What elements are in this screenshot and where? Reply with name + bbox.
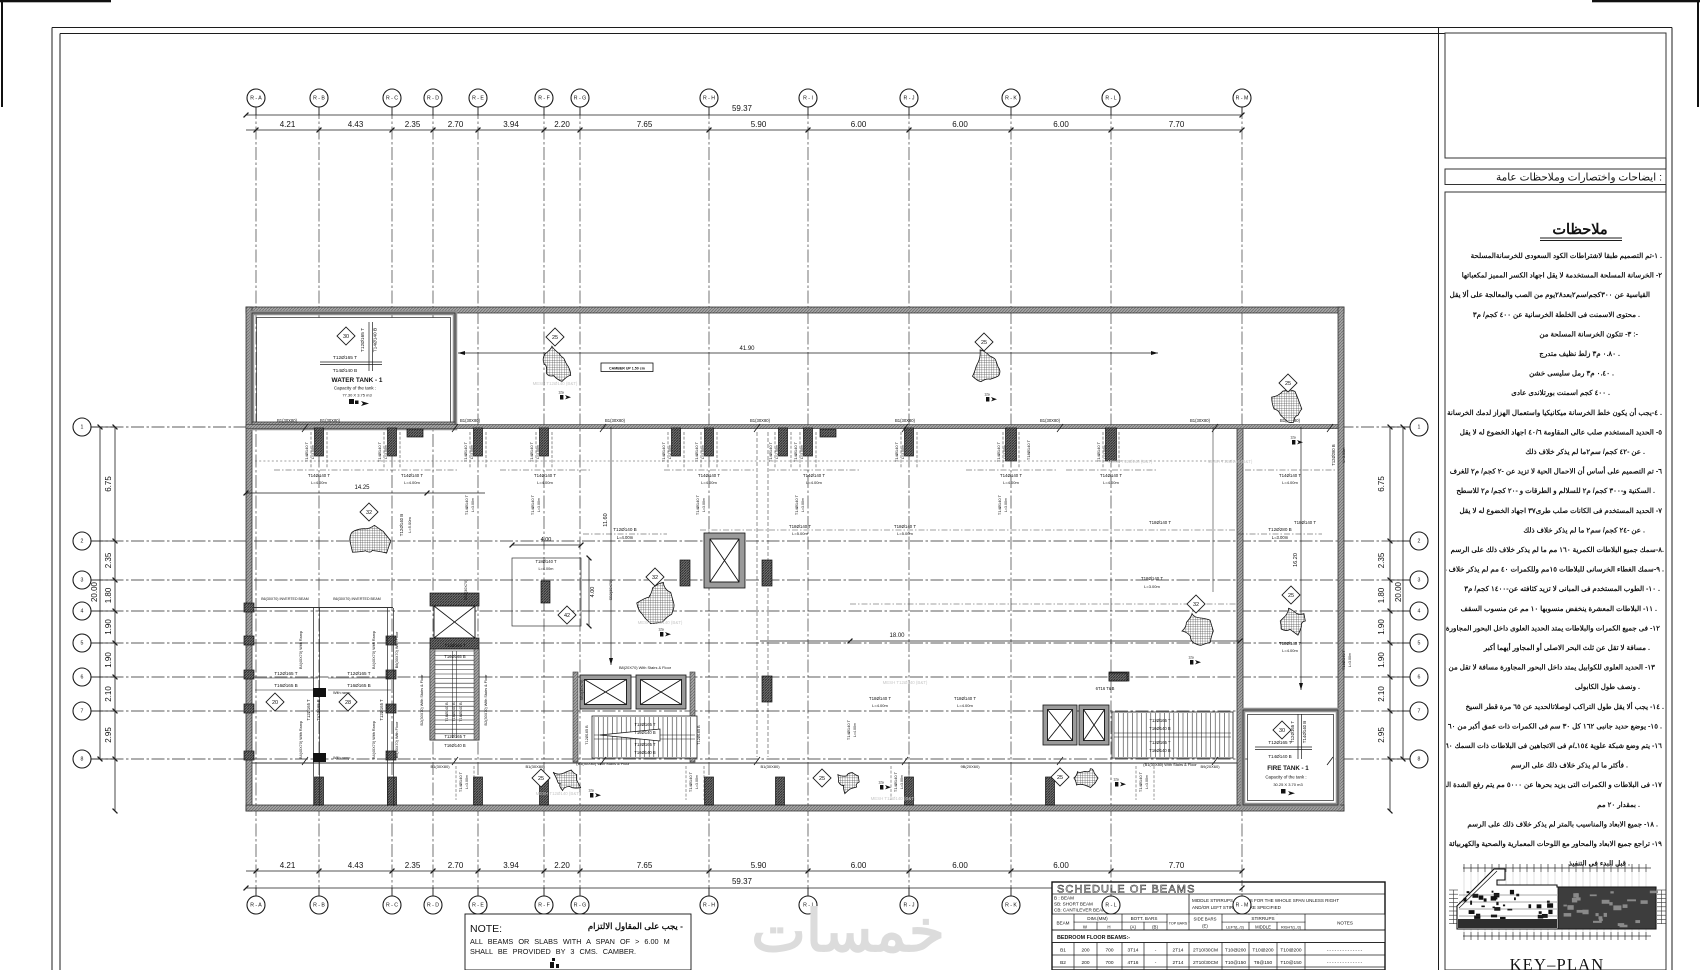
svg-text:MESH T12Ø140 (B&T): MESH T12Ø140 (B&T): [1108, 459, 1153, 464]
left rooms slab labels: [255, 678, 391, 690]
hatched cloud marker 25: [972, 350, 999, 382]
right dimension chain: [1389, 427, 1391, 811]
long dashed chain lines: [255, 460, 1235, 462]
svg-text:T16Ø140 B: T16Ø140 B: [459, 702, 463, 722]
key plan mini drawing: [1449, 864, 1666, 940]
hatched cloud marker 25: [553, 770, 580, 791]
svg-text:1: 1: [81, 425, 84, 431]
misc flat columns: [1109, 673, 1127, 681]
svg-text:B6(30X70) INVERTED BEAM: B6(30X70) INVERTED BEAM: [333, 597, 380, 601]
svg-text:T12Ø280 B: T12Ø280 B: [1331, 444, 1336, 466]
svg-text:T12Ø140 B: T12Ø140 B: [613, 527, 637, 532]
svg-text:RIGHT(L./3): RIGHT(L./3): [1281, 926, 1301, 930]
svg-text:7: 7: [1418, 709, 1421, 715]
svg-text:L=5.00m: L=5.00m: [897, 531, 913, 536]
svg-text:16.20: 16.20: [1293, 553, 1299, 567]
svg-text:R - J: R - J: [904, 96, 915, 102]
small landing rect: [1109, 672, 1129, 681]
left dimension chain: [114, 427, 116, 811]
svg-text:T14Ø140 B: T14Ø140 B: [1268, 754, 1292, 759]
svg-text:32: 32: [1193, 602, 1199, 608]
fire tank walls: [1243, 710, 1338, 805]
svg-text:MIDDLE: MIDDLE: [1255, 925, 1271, 930]
svg-text:MESH T12Ø140 (B&T): MESH T12Ø140 (B&T): [536, 791, 581, 796]
svg-text:1: 1: [1418, 425, 1421, 431]
svg-text:SHALL BE PROVIDED BY 3 CMS. CA: SHALL BE PROVIDED BY 3 CMS. CAMBER.: [470, 947, 636, 956]
svg-text:H: H: [1107, 925, 1110, 930]
plan right wall: [1338, 307, 1344, 811]
svg-text:20.00: 20.00: [1394, 581, 1403, 602]
svg-text:BOTT. BARS: BOTT. BARS: [1131, 916, 1158, 921]
svg-text:T14Ø140 B: T14Ø140 B: [333, 368, 358, 374]
dashed interior line y604: [850, 603, 1237, 605]
svg-text:12a: 12a: [588, 789, 594, 793]
svg-text:SB2(30X70): SB2(30X70): [464, 579, 468, 600]
svg-text:عن -٢٤ كجم/ سم٢ ما لم يذكر خلا: عن -٢٤ كجم/ سم٢ ما لم يذكر خلاف ذلك .: [1523, 526, 1645, 534]
svg-text:2.10: 2.10: [104, 686, 113, 702]
dim 16.20 rotated: [1300, 427, 1302, 690]
stair core 1 side walls: [430, 649, 435, 740]
svg-text:700: 700: [1105, 948, 1113, 954]
svg-text:6.00: 6.00: [952, 861, 968, 870]
svg-text:T12Ø165 T: T12Ø165 T: [444, 734, 466, 739]
svg-text:12a: 12a: [558, 391, 564, 395]
svg-text:٥- الحديد المستخدم صلب عالى ال: ٥- الحديد المستخدم صلب عالى المقاومة ٤٠/…: [1460, 428, 1662, 436]
wide flat column under row1: [407, 429, 423, 437]
svg-text:B2(30X70) With Stairs & Floor: B2(30X70) With Stairs & Floor: [484, 674, 488, 726]
svg-text:12a: 12a: [658, 628, 664, 632]
svg-text:B4(40X70) With Ramp: B4(40X70) With Ramp: [372, 631, 376, 669]
svg-text:1.90: 1.90: [104, 619, 113, 635]
svg-text:8: 8: [81, 757, 84, 763]
svg-text:2: 2: [1418, 539, 1421, 545]
plan top wall: [246, 307, 1344, 313]
svg-text:NOTES: NOTES: [1337, 921, 1353, 926]
svg-text:B1(30X80): B1(30X80): [277, 418, 298, 423]
svg-text:T12Ø165 T: T12Ø165 T: [1268, 740, 1291, 745]
svg-text:3: 3: [1418, 578, 1421, 584]
svg-text:T14Ø140 T: T14Ø140 T: [1096, 441, 1101, 462]
svg-text:B6(30X70) INVERTED BEAM: B6(30X70) INVERTED BEAM: [261, 597, 308, 601]
svg-text:T12Ø140 B: T12Ø140 B: [399, 514, 404, 537]
svg-text:T14Ø140 T: T14Ø140 T: [793, 441, 798, 462]
svg-text:B1(30X80): B1(30X80): [1040, 418, 1061, 423]
svg-text:6.75: 6.75: [1377, 476, 1386, 492]
svg-text:١٣- الحديد العلوى للكوابيل يمت: ١٣- الحديد العلوى للكوابيل يمتد داخل الب…: [1435, 664, 1655, 672]
svg-text:14.25: 14.25: [354, 485, 370, 491]
svg-text:4.21: 4.21: [280, 861, 296, 870]
svg-text:L=3.00m: L=3.00m: [1348, 653, 1352, 667]
svg-text:7.70: 7.70: [1169, 120, 1185, 129]
svg-text:6.00: 6.00: [952, 120, 968, 129]
svg-text:7.65: 7.65: [637, 861, 653, 870]
water tank walls: [252, 313, 455, 428]
bottom beam line row8: [252, 762, 1237, 764]
svg-text:L=4.00m: L=4.00m: [853, 723, 857, 737]
svg-text:12a: 12a: [1113, 778, 1119, 782]
svg-text:(B): (B): [1152, 925, 1158, 930]
svg-text:6.00: 6.00: [1053, 120, 1069, 129]
svg-text:L=4.00m: L=4.00m: [701, 480, 717, 485]
svg-text:2: 2: [81, 539, 84, 545]
svg-text:T16Ø140 B: T16Ø140 B: [634, 750, 656, 755]
key plan building outline: [1457, 869, 1656, 929]
svg-text:T14Ø140 T: T14Ø140 T: [695, 494, 700, 515]
svg-text:T14Ø140 T: T14Ø140 T: [529, 441, 534, 462]
svg-text:T16Ø140 B: T16Ø140 B: [1149, 726, 1171, 731]
svg-text:T14Ø140 T: T14Ø140 T: [464, 494, 469, 515]
svg-text:L=4.00m: L=4.00m: [404, 480, 420, 485]
svg-text:T14Ø140 B: T14Ø140 B: [1302, 721, 1307, 744]
svg-text:1.80: 1.80: [1377, 587, 1386, 603]
svg-text:LEFT(L./3): LEFT(L./3): [1226, 926, 1244, 930]
svg-text:L=3.00m: L=3.00m: [1144, 584, 1160, 589]
svg-text:R - C: R - C: [386, 96, 398, 102]
svg-text:R - A: R - A: [250, 96, 262, 102]
svg-text:L=3.00m: L=3.00m: [701, 445, 705, 459]
svg-text:12a: 12a: [984, 393, 990, 397]
svg-text:R - M: R - M: [1236, 903, 1249, 909]
svg-text:T14Ø140 T: T14Ø140 T: [304, 441, 309, 462]
svg-text:T14Ø140 T: T14Ø140 T: [768, 441, 773, 462]
svg-text:8: 8: [1418, 757, 1421, 763]
inverted beam line row4 left: [252, 607, 393, 609]
svg-text:12a: 12a: [1188, 656, 1194, 660]
svg-text:T14Ø140 T: T14Ø140 T: [308, 473, 330, 478]
vertical beam G-H: [756, 432, 758, 757]
svg-text:B4(40X70) With Ramp: B4(40X70) With Ramp: [299, 631, 303, 669]
svg-text:2T14: 2T14: [1173, 960, 1184, 966]
svg-text:1.90: 1.90: [1377, 652, 1386, 668]
svg-text:11.60: 11.60: [603, 513, 609, 526]
svg-text:٤-يجب أن يكون خلط الخرسانة ميك: ٤-يجب أن يكون خلط الخرسانة ميكانيكيا واس…: [1447, 407, 1662, 417]
svg-text:MESH T12Ø140 (B&T): MESH T12Ø140 (B&T): [533, 381, 578, 386]
svg-text:L=4.00m: L=4.00m: [537, 480, 553, 485]
svg-text:5.90: 5.90: [751, 861, 767, 870]
svg-text:R - C: R - C: [386, 903, 398, 909]
svg-text:6: 6: [1418, 675, 1421, 681]
svg-text:L=4.00m: L=4.00m: [617, 535, 634, 540]
svg-text:R - K: R - K: [1005, 96, 1017, 102]
svg-text:77.30 X 3.75 m3: 77.30 X 3.75 m3: [342, 393, 372, 398]
ramp lane walls: [313, 608, 315, 806]
svg-text:DIM.(MM): DIM.(MM): [1087, 916, 1108, 921]
svg-text:L=3.00m: L=3.00m: [311, 445, 315, 459]
svg-text:4.00: 4.00: [541, 537, 552, 543]
svg-text:L=3.00m: L=3.00m: [471, 498, 475, 512]
stair core 4 stairs right: [1112, 712, 1233, 758]
svg-text:L=4.00m: L=4.00m: [1103, 480, 1119, 485]
svg-text:T12Ø165 T: T12Ø165 T: [1149, 740, 1171, 745]
svg-text:T14Ø140 T: T14Ø140 T: [996, 441, 1001, 462]
sheet corner marks: [0, 0, 111, 2]
svg-text:1.90: 1.90: [104, 652, 113, 668]
svg-text:2.35: 2.35: [104, 552, 113, 568]
svg-text:MESH T12Ø140 (B&T): MESH T12Ø140 (B&T): [871, 796, 916, 801]
svg-text:١٧- فى البلاطات و الكمرات التى: ١٧- فى البلاطات و الكمرات التى يزيد بحره…: [1428, 781, 1662, 789]
svg-text:T14Ø140 T: T14Ø140 T: [688, 771, 693, 792]
svg-text:T18Ø140 T: T18Ø140 T: [1141, 576, 1163, 581]
key plan grid combs: [1463, 864, 1651, 940]
svg-text:L=3.00m: L=3.00m: [384, 445, 388, 459]
hatched cloud marker 25: [1280, 608, 1305, 635]
svg-text:٩-سمك الغطاء الخرسانى للبلاطات: ٩-سمك الغطاء الخرسانى للبلاطات ١٥مم وللك…: [1435, 566, 1664, 574]
bedroom floor beams row: [1053, 931, 1385, 943]
svg-text:ايضاحات واختصارات وملاحظات عام: ايضاحات واختصارات وملاحظات عامة :: [1496, 172, 1662, 184]
svg-text:7: 7: [81, 709, 84, 715]
svg-text:T14Ø140 T: T14Ø140 T: [794, 494, 799, 515]
svg-text:MESH T12Ø140 (B&T): MESH T12Ø140 (B&T): [883, 680, 928, 685]
svg-text:59.37: 59.37: [732, 877, 753, 886]
dim 41.90: [458, 352, 1158, 354]
svg-text:59.37: 59.37: [732, 104, 753, 113]
right panel top empty box: [1445, 33, 1666, 158]
svg-text:B6(30X70) With Floor: B6(30X70) With Floor: [395, 721, 399, 758]
svg-text:T10@150: T10@150: [1280, 960, 1301, 966]
svg-text:٧- الحديد المستخدم فى الكانات: ٧- الحديد المستخدم فى الكانات صلب طرى٣٧ …: [1460, 507, 1663, 515]
svg-text:٣- تتكون الخرسانة المسلحة من :: ٣- تتكون الخرسانة المسلحة من :-: [1539, 330, 1638, 338]
svg-text:R - K: R - K: [1005, 903, 1017, 909]
svg-text:2.95: 2.95: [104, 727, 113, 743]
svg-text:L=4.00m: L=4.00m: [311, 480, 327, 485]
svg-text:BEAM: BEAM: [1056, 921, 1069, 926]
svg-text:L=4.00m: L=4.00m: [1282, 480, 1298, 485]
dim 18.00: [760, 640, 1240, 642]
svg-text:١١- البلاطات المعشرة ينخفض منس: ١١- البلاطات المعشرة ينخفض منسوبها ١٠ مم…: [1461, 605, 1657, 613]
svg-text:خمسات: خمسات: [751, 899, 944, 964]
svg-text:L=4.00m: L=4.00m: [872, 703, 888, 708]
svg-text:30.25 X 3.70 m3: 30.25 X 3.70 m3: [1273, 782, 1303, 787]
svg-text:R - D: R - D: [427, 96, 439, 102]
svg-text:BEDROOM FLOOR BEAMS:-: BEDROOM FLOOR BEAMS:-: [1057, 935, 1130, 941]
svg-text:L=3.00m: L=3.00m: [1342, 448, 1346, 463]
svg-text:9B(20X60): 9B(20X60): [960, 764, 980, 769]
4.00 square room: [512, 558, 581, 626]
bottom overall dimension 59.37: [246, 887, 1052, 889]
svg-text:12a: 12a: [878, 781, 884, 785]
svg-text:ALL BEAMS OR SLABS WITH A SPAN: ALL BEAMS OR SLABS WITH A SPAN OF > 6.00…: [470, 937, 670, 946]
stair core 3 shaft: [704, 533, 745, 588]
hatched cloud marker 32: [637, 582, 674, 623]
svg-text:B1(30X80): B1(30X80): [605, 418, 626, 423]
key plan left half interior marks: [1463, 890, 1553, 922]
beam labels L=4.00m under row1: [274, 469, 364, 471]
svg-text:L=4.00m: L=4.00m: [539, 567, 554, 571]
svg-text:٠.٨٠ م٣ زلط نظيف متدرج .: ٠.٨٠ م٣ زلط نظيف متدرج .: [1539, 350, 1620, 358]
svg-text:T12Ø165 T: T12Ø165 T: [360, 328, 366, 352]
svg-text:20.00: 20.00: [90, 581, 99, 602]
svg-text:B1(30X80): B1(30X80): [895, 418, 916, 423]
svg-text:L=3.00m: L=3.00m: [470, 445, 474, 459]
left overall dimension 20.00: [99, 427, 101, 759]
svg-text:T16Ø165 B: T16Ø165 B: [347, 683, 371, 688]
svg-text:4.43: 4.43: [348, 120, 364, 129]
svg-text:2.70: 2.70: [448, 120, 464, 129]
svg-text:SIDE BARS: SIDE BARS: [1194, 917, 1217, 922]
hatched cloud marker 25: [1272, 390, 1302, 422]
svg-text:FIRE TANK - 1: FIRE TANK - 1: [1267, 765, 1309, 772]
svg-text:B6(30X70) With Floor: B6(30X70) With Floor: [395, 631, 399, 668]
svg-text:T18Ø140 T: T18Ø140 T: [1026, 439, 1031, 460]
svg-text:--------------: --------------: [1327, 949, 1363, 954]
svg-text:L=3.00m: L=3.00m: [1272, 535, 1289, 540]
svg-text:T16Ø140 B: T16Ø140 B: [445, 702, 449, 722]
svg-text:2.35: 2.35: [405, 861, 421, 870]
svg-text:1.80: 1.80: [104, 587, 113, 603]
svg-text:2T10/30CM: 2T10/30CM: [1193, 948, 1218, 954]
stair core 2 stairs: [592, 716, 697, 758]
svg-text:B1(30X80): B1(30X80): [320, 418, 341, 423]
svg-text:T12Ø165 B: T12Ø165 B: [697, 725, 701, 745]
svg-text:2.70: 2.70: [448, 861, 464, 870]
svg-text:25: 25: [1057, 775, 1063, 781]
svg-text:T14Ø140 T: T14Ø140 T: [458, 771, 463, 792]
top grid bubbles R-A..R-M: [255, 98, 257, 115]
svg-text:R - G: R - G: [574, 96, 586, 102]
svg-text:١٢- فى جميع الكمرات والبلاطات: ١٢- فى جميع الكمرات والبلاطات يمتد الحدي…: [1446, 624, 1660, 632]
svg-text:B8(20X70) With Stairs & Floor: B8(20X70) With Stairs & Floor: [619, 665, 672, 670]
svg-text:T10@200: T10@200: [1280, 948, 1301, 954]
svg-text:28: 28: [345, 700, 351, 706]
misc tick marks row1 area: [302, 424, 308, 765]
columns on bottom wall and row 8: [315, 777, 324, 805]
svg-text:L=4.00m: L=4.00m: [1282, 648, 1298, 653]
svg-text:T18Ø140 T: T18Ø140 T: [1149, 520, 1171, 525]
sheet frame border: [52, 27, 1672, 29]
svg-text:عن -٤٢ كجم/ سم٢ما لم يذكر خلاف: عن -٤٢ كجم/ سم٢ما لم يذكر خلاف ذلك .: [1525, 448, 1645, 456]
svg-text:6T16 T&B: 6T16 T&B: [1096, 686, 1115, 691]
svg-text:T14Ø140 T: T14Ø140 T: [803, 473, 825, 478]
key plan hatched right block: [1558, 887, 1656, 929]
svg-text:SB: SHORT BEAM: SB: SHORT BEAM: [1054, 902, 1093, 907]
fire tank diamond 30: [1273, 721, 1291, 739]
svg-text:T14Ø140 T: T14Ø140 T: [894, 441, 899, 462]
svg-text:L=4.00m: L=4.00m: [806, 480, 822, 485]
svg-text:L=3.00m: L=3.00m: [536, 445, 540, 459]
svg-text:25: 25: [1285, 381, 1291, 387]
svg-text:٠.٤٠ م٣ رمل سليسى خشن .: ٠.٤٠ م٣ رمل سليسى خشن .: [1529, 370, 1614, 378]
svg-text:ونصف طول الكابولى .: ونصف طول الكابولى .: [1575, 683, 1640, 691]
svg-text:R - H: R - H: [703, 96, 715, 102]
svg-text:B1(30X80): B1(30X80): [460, 418, 481, 423]
svg-text:--------------: --------------: [1327, 961, 1363, 966]
svg-text:25: 25: [1288, 593, 1294, 599]
svg-text:السكنية و-٣٠٠ كجم/ م٢ للسلالم: السكنية و-٣٠٠ كجم/ م٢ للسلالم و الطرقات …: [1456, 487, 1655, 495]
svg-text:SCHEDULE OF BEAMS: SCHEDULE OF BEAMS: [1057, 884, 1196, 896]
svg-text:200: 200: [1081, 948, 1089, 954]
svg-text:T14Ø140 T: T14Ø140 T: [694, 441, 699, 462]
svg-text:2.10: 2.10: [1377, 686, 1386, 702]
svg-text:R - L: R - L: [1105, 903, 1116, 909]
svg-text:L=5.00m: L=5.00m: [407, 516, 412, 532]
svg-text:12a: 12a: [1290, 436, 1296, 440]
svg-text:مسافة لا تقل عن ثلث البحر الاص: مسافة لا تقل عن ثلث البحر الاصلى أو المج…: [1483, 642, 1650, 652]
svg-text:R - G: R - G: [574, 903, 586, 909]
key plan bottom dark band: [1458, 919, 1557, 928]
svg-text:L=3.00m: L=3.00m: [1103, 445, 1107, 459]
svg-text:T14Ø140 T: T14Ø140 T: [1138, 771, 1143, 792]
svg-text:2T14: 2T14: [1173, 948, 1184, 954]
svg-text:L=3.00m: L=3.00m: [901, 445, 905, 459]
svg-text:T18Ø140 T: T18Ø140 T: [954, 696, 976, 701]
svg-text:T16Ø140 B: T16Ø140 B: [634, 730, 656, 735]
svg-text:T18Ø140 T: T18Ø140 T: [535, 559, 557, 564]
svg-text:200: 200: [1081, 960, 1089, 966]
stair core 1 elevator: [430, 593, 479, 606]
svg-text:B1(30X80): B1(30X80): [760, 764, 780, 769]
column grid lines R-A..R-M: [255, 106, 257, 897]
svg-text:١٨- جميع الابعاد والمناسيب بال: ١٨- جميع الابعاد والمناسيب بالمتر لم يذك…: [1467, 820, 1658, 828]
plan bottom wall: [246, 805, 1344, 811]
schedule header cells: [1073, 914, 1075, 970]
svg-text:41.90: 41.90: [739, 346, 755, 352]
svg-text:T18Ø140 T: T18Ø140 T: [1294, 520, 1316, 525]
svg-text:T14Ø140 T: T14Ø140 T: [893, 771, 898, 792]
right row bubbles 1..8: [1390, 426, 1411, 428]
svg-text:NOTE:: NOTE:: [470, 923, 502, 935]
svg-text:7.65: 7.65: [637, 120, 653, 129]
svg-text:R - B: R - B: [313, 903, 325, 909]
svg-text:3T14: 3T14: [1128, 948, 1139, 954]
svg-text:T12Ø165 T: T12Ø165 T: [333, 355, 357, 361]
hatched cloud marker 25: [838, 773, 859, 794]
svg-text:6.00: 6.00: [851, 861, 867, 870]
svg-text:B1(30X80): B1(30X80): [430, 764, 450, 769]
svg-text:T8@150: T8@150: [1254, 960, 1273, 966]
svg-text:T18Ø140 T: T18Ø140 T: [1279, 641, 1301, 646]
svg-text:B4(40X70) With Ramp: B4(40X70) With Ramp: [299, 721, 303, 759]
svg-text:4.43: 4.43: [348, 861, 364, 870]
svg-text:B1(30X80): B1(30X80): [1190, 418, 1211, 423]
svg-text:KEY–PLAN: KEY–PLAN: [1510, 955, 1605, 970]
svg-text:T14Ø140 T: T14Ø140 T: [1279, 473, 1301, 478]
beam stirrup marks and labels below row 1: [311, 432, 327, 468]
svg-text:T14Ø140 T: T14Ø140 T: [1100, 473, 1122, 478]
key plan side combs: [1449, 890, 1666, 924]
top overall dimension 59.37: [246, 114, 1242, 116]
svg-text:T14Ø140 T: T14Ø140 T: [997, 494, 1002, 515]
svg-text:B1(30X80): B1(30X80): [525, 764, 545, 769]
svg-text:L=5.00m: L=5.00m: [792, 531, 808, 536]
svg-text:T10@200: T10@200: [1252, 948, 1273, 954]
svg-text:B1: B1: [1060, 948, 1066, 954]
svg-text:L=3.00m: L=3.00m: [695, 775, 699, 789]
svg-text:R - H: R - H: [703, 903, 715, 909]
top dimension chain: [246, 129, 1242, 131]
svg-text:2.95: 2.95: [1377, 727, 1386, 743]
svg-text:T12Ø165 T: T12Ø165 T: [444, 643, 466, 648]
grid bubbles over table: [1110, 888, 1112, 897]
svg-text:7.70: 7.70: [1169, 861, 1185, 870]
svg-text:T12Ø165 T: T12Ø165 T: [634, 742, 656, 747]
svg-text:5: 5: [1418, 641, 1421, 647]
svg-text:18.00: 18.00: [889, 633, 905, 639]
svg-text:محتوى الاسمنت فى الخلطة الخرسا: محتوى الاسمنت فى الخلطة الخرسانية عن ٤٠٠…: [1473, 311, 1640, 319]
svg-text:B1(30X80): B1(30X80): [750, 418, 771, 423]
left rooms diamonds: [266, 693, 284, 711]
hatched cloud marker 32: [350, 525, 391, 553]
svg-text:T18Ø140 T: T18Ø140 T: [1341, 649, 1346, 670]
svg-text:R - L: R - L: [1105, 96, 1116, 102]
svg-text:T10@200: T10@200: [1225, 948, 1246, 954]
svg-text:6.00: 6.00: [1053, 861, 1069, 870]
svg-text:With ramp: With ramp: [333, 756, 350, 760]
hatched cloud marker 25: [543, 346, 571, 381]
svg-text:4.21: 4.21: [280, 120, 296, 129]
svg-text:T14Ø140 T: T14Ø140 T: [534, 473, 556, 478]
small columns left wall: [244, 603, 254, 612]
svg-text:32: 32: [652, 575, 658, 581]
